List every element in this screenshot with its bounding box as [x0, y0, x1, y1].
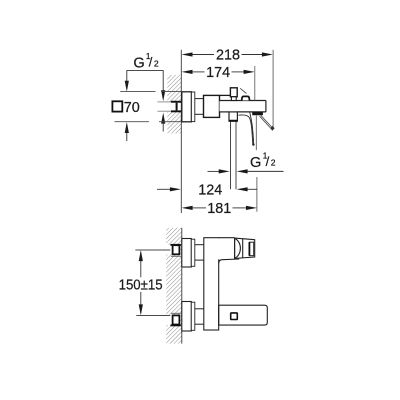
svg-text:/: / — [266, 154, 270, 169]
escutcheon flange (side view) — [182, 92, 192, 122]
lower supply fitting (plan) — [171, 312, 181, 314]
label square-70 — [112, 101, 122, 111]
hose outlet collar (side view) — [229, 112, 237, 121]
lower escutcheon (plan) — [182, 302, 192, 332]
wall face line (plan view) — [181, 228, 183, 344]
dimension 124 — [157, 188, 170, 190]
diverter knob base — [231, 97, 236, 101]
aerator (side view) — [252, 112, 263, 115]
svg-text:2: 2 — [154, 58, 159, 68]
dimension 174 — [192, 71, 244, 73]
diverter knob (side view) — [230, 88, 237, 97]
extension line spout outlet (down to 181 dim) — [255, 116, 257, 151]
aerator (plan) — [249, 242, 253, 256]
svg-text:181: 181 — [207, 201, 231, 217]
lower arm / spout bar (plan) — [219, 305, 268, 325]
spout outlet (plan) — [235, 238, 255, 258]
neck (side view) — [195, 98, 204, 100]
extension line flange bottom — [115, 121, 149, 123]
hose outlet tube (side view) — [230, 122, 232, 190]
svg-text:150±15: 150±15 — [119, 278, 163, 294]
diverter knob (plan) — [231, 313, 238, 320]
label G 1/2 (right) with leader — [208, 170, 221, 172]
svg-text:G: G — [133, 56, 144, 72]
body column (plan) — [204, 238, 219, 330]
body cap top line — [220, 94, 231, 96]
supply pipe lines — [158, 101, 173, 103]
wall face line (side view) — [180, 50, 182, 213]
supply fitting (bold, in wall) — [171, 101, 182, 113]
svg-text:G: G — [250, 155, 261, 171]
extension line 174 (right) — [254, 66, 256, 100]
sq70 upper arrow — [126, 70, 128, 81]
wall hatch (plan view) — [166, 228, 182, 344]
dimension 218 — [192, 54, 262, 56]
wall hatch (side view) — [167, 75, 181, 134]
G1/2 pipe lower arrow — [161, 113, 165, 124]
G1/2 leader underline — [127, 69, 164, 71]
extension line flange top — [120, 91, 155, 93]
sq70 lower arrow — [125, 122, 129, 133]
supply pipe white gap in wall — [167, 102, 182, 112]
dimension 181 — [192, 207, 206, 209]
svg-text:/: / — [149, 55, 153, 70]
svg-text:218: 218 — [216, 48, 240, 64]
lever tip diamond — [270, 126, 274, 131]
upper neck (plan) — [195, 244, 204, 246]
white gaps at connections — [165, 245, 172, 255]
G1/2 pipe upper arrow — [162, 70, 164, 90]
hump on barrel top — [242, 96, 250, 100]
lever blade curve (side view) — [239, 115, 253, 144]
upper supply fitting (plan) — [173, 245, 180, 254]
dimension 150±15 — [135, 249, 170, 251]
svg-text:124: 124 — [198, 183, 222, 199]
upper escutcheon (plan) — [182, 239, 192, 268]
svg-text:174: 174 — [206, 65, 230, 81]
upper arm (plan) — [218, 238, 235, 259]
valve body (side view) — [204, 95, 220, 117]
lower neck (plan) — [195, 308, 204, 310]
svg-text:2: 2 — [271, 158, 276, 168]
flange cover plate (side view) — [191, 92, 194, 122]
lever open-position diagonal — [261, 115, 272, 127]
svg-text:70: 70 — [124, 100, 140, 116]
extension line 218 (right) — [272, 50, 274, 127]
spout barrel (side view) — [220, 101, 266, 112]
thin diagonal mark on spout top — [240, 88, 246, 93]
